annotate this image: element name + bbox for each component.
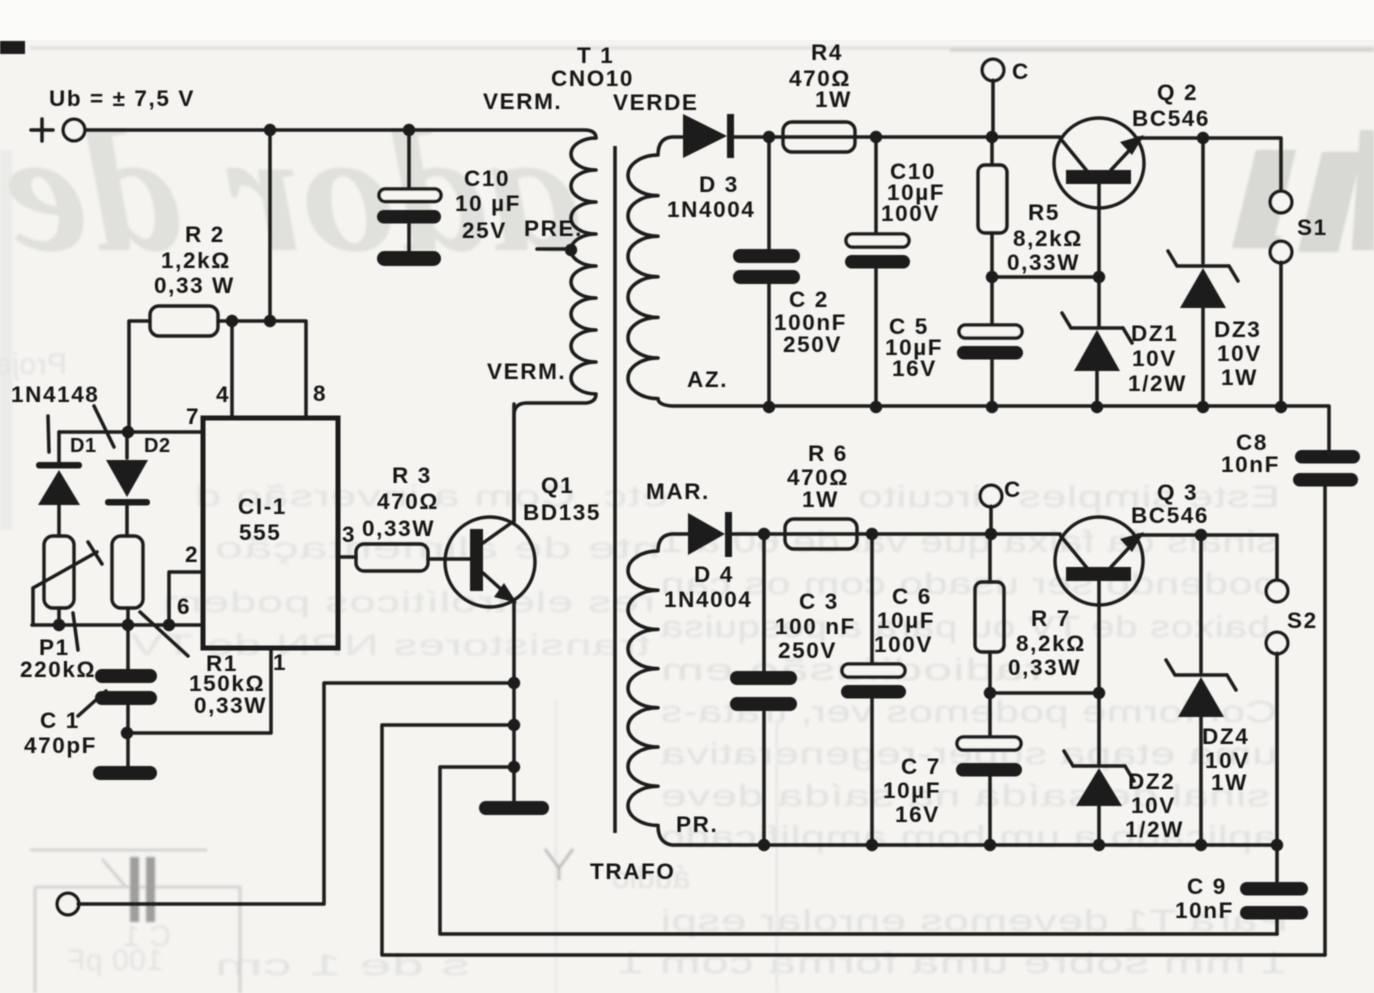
svg-text:100 nF: 100 nF [775, 614, 856, 639]
svg-text:0,33W: 0,33W [194, 693, 267, 718]
svg-text:250V: 250V [778, 638, 837, 663]
svg-text:R5: R5 [1028, 200, 1060, 225]
svg-text:R4: R4 [811, 40, 843, 65]
svg-text:R 2: R 2 [185, 222, 225, 247]
svg-text:8,2kΩ: 8,2kΩ [1013, 226, 1083, 251]
svg-text:C 1: C 1 [40, 708, 80, 733]
svg-text:TRAFO: TRAFO [590, 859, 676, 884]
svg-text:Este simples circuito: Este simples circuito [857, 479, 1280, 514]
svg-text:1N4004: 1N4004 [664, 587, 752, 612]
svg-text:1W: 1W [802, 487, 839, 512]
svg-text:1/2W: 1/2W [1125, 817, 1184, 842]
svg-text:25V: 25V [462, 218, 507, 243]
svg-text:2: 2 [185, 542, 199, 567]
svg-text:DZ3: DZ3 [1214, 317, 1261, 342]
svg-text:CI-1: CI-1 [238, 494, 287, 519]
svg-text:470pF: 470pF [24, 733, 97, 758]
svg-text:1,2kΩ: 1,2kΩ [161, 248, 231, 273]
svg-text:aplicado a um bom amplificado: aplicado a um bom amplificado [660, 819, 1277, 854]
svg-text:C 6: C 6 [892, 584, 932, 609]
svg-text:1N4004: 1N4004 [667, 197, 755, 222]
svg-text:8,2kΩ: 8,2kΩ [1016, 631, 1086, 656]
svg-text:PR.: PR. [676, 812, 718, 837]
svg-text:7: 7 [186, 404, 200, 429]
svg-text:555: 555 [239, 520, 281, 545]
svg-text:Projeto: Projeto [0, 348, 67, 381]
svg-text:220kΩ: 220kΩ [20, 657, 96, 682]
svg-text:250V: 250V [783, 332, 842, 357]
svg-text:10nF: 10nF [1221, 452, 1280, 477]
svg-text:PRE.: PRE. [524, 216, 583, 241]
svg-text:D1: D1 [70, 435, 97, 457]
svg-text:Q 3: Q 3 [1157, 480, 1198, 505]
svg-text:C 7: C 7 [901, 754, 941, 779]
svg-text:0,33W: 0,33W [1008, 655, 1081, 680]
svg-text:C 3: C 3 [799, 589, 839, 614]
svg-text:1 mm sobre uma forma com 1: 1 mm sobre uma forma com 1 [617, 945, 1288, 980]
svg-text:Q1: Q1 [541, 473, 574, 498]
svg-text:470Ω: 470Ω [377, 489, 439, 514]
svg-text:DZ1: DZ1 [1131, 321, 1178, 346]
svg-text:10V: 10V [1132, 346, 1177, 371]
svg-text:sinais da faixa que vai de 60: sinais da faixa que vai de 60 a 1 [660, 524, 1277, 559]
svg-text:podendo ser usado com os can: podendo ser usado com os can [660, 566, 1277, 601]
svg-text:100V: 100V [874, 632, 933, 657]
svg-text:R 3: R 3 [392, 463, 432, 488]
svg-text:1N4148: 1N4148 [11, 382, 99, 407]
svg-text:baixos de TV ou para a pesquis: baixos de TV ou para a pesquisa [660, 609, 1270, 644]
svg-text:3: 3 [342, 522, 356, 547]
svg-text:1/2W: 1/2W [1128, 371, 1187, 396]
svg-text:C 9: C 9 [1187, 874, 1227, 899]
svg-text:6: 6 [177, 594, 191, 619]
svg-text:C 2: C 2 [789, 287, 829, 312]
svg-text:D 4: D 4 [694, 562, 734, 587]
svg-text:C10: C10 [464, 166, 510, 191]
svg-text:VERM.: VERM. [487, 359, 566, 384]
svg-text:R 7: R 7 [1031, 606, 1071, 631]
svg-text:1W: 1W [815, 87, 852, 112]
svg-text:10V: 10V [1131, 793, 1176, 818]
svg-text:VERDE: VERDE [613, 90, 699, 115]
svg-text:VERM.: VERM. [483, 89, 562, 114]
svg-text:T 1: T 1 [577, 43, 614, 68]
svg-text:S1: S1 [1297, 215, 1328, 240]
svg-text:10µF: 10µF [883, 778, 941, 803]
svg-text:CNO10: CNO10 [551, 66, 634, 91]
svg-text:0,33W: 0,33W [362, 516, 435, 541]
svg-text:BD135: BD135 [523, 500, 601, 525]
svg-text:C: C [1004, 477, 1022, 502]
svg-text:Q 2: Q 2 [1157, 80, 1198, 105]
svg-text:10µF: 10µF [877, 608, 935, 633]
svg-text:16V: 16V [892, 356, 937, 381]
svg-text:16V: 16V [895, 802, 940, 827]
svg-text:0,33 W: 0,33 W [154, 273, 235, 298]
svg-text:D 3: D 3 [699, 172, 739, 197]
svg-text:1W: 1W [1221, 365, 1258, 390]
svg-text:10 µF: 10 µF [455, 191, 521, 216]
svg-text:S2: S2 [1287, 608, 1318, 633]
svg-text:10nF: 10nF [1175, 898, 1234, 923]
svg-text:BC546: BC546 [1131, 503, 1209, 528]
svg-text:C: C [1012, 59, 1030, 84]
svg-text:res eletrolíticos podem: res eletrolíticos podem [162, 586, 655, 619]
svg-text:100V: 100V [881, 201, 940, 226]
svg-text:8: 8 [313, 381, 327, 406]
svg-text:1W: 1W [1211, 770, 1248, 795]
svg-text:D2: D2 [144, 435, 171, 457]
svg-text:MAR.: MAR. [646, 479, 710, 504]
svg-text:sinal de saída na saída deve: sinal de saída na saída deve [660, 778, 1270, 813]
svg-text:DZ2: DZ2 [1128, 769, 1175, 794]
svg-text:AZ.: AZ. [687, 367, 728, 392]
svg-text:0,33W: 0,33W [1007, 250, 1080, 275]
svg-text:1: 1 [273, 650, 287, 675]
svg-text:DZ4: DZ4 [1202, 724, 1249, 749]
svg-text:Ub = ± 7,5 V: Ub = ± 7,5 V [49, 86, 195, 111]
svg-text:BC546: BC546 [1132, 106, 1210, 131]
svg-text:10V: 10V [1217, 341, 1262, 366]
svg-text:4: 4 [216, 382, 230, 407]
svg-text:R 6: R 6 [808, 441, 848, 466]
svg-text:100 pF: 100 pF [67, 944, 163, 977]
